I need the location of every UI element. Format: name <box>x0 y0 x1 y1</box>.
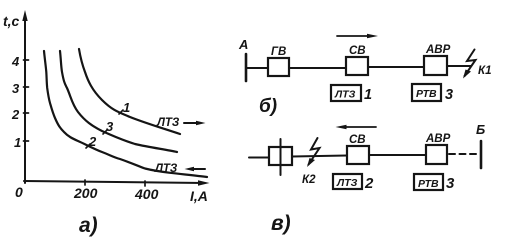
leader tick of label 1 <box>119 110 123 114</box>
open-state bar through GV <box>280 139 282 175</box>
fault K2 lightning bolt <box>309 138 320 165</box>
svg-text:К2: К2 <box>302 174 316 186</box>
leader tick of label 2 <box>86 144 90 148</box>
y tick 4 <box>24 59 29 61</box>
open breaker GV box (v) <box>269 147 292 165</box>
svg-text:б): б) <box>259 96 277 117</box>
svg-text:3: 3 <box>12 81 20 96</box>
power-flow arrow over SV (b) <box>337 35 371 37</box>
leader tick of label 3 <box>103 130 107 134</box>
svg-text:АВР: АВР <box>425 133 451 145</box>
svg-text:ГВ: ГВ <box>271 46 286 58</box>
wire SV to AVR (b) <box>368 66 424 68</box>
wire AVR to fault K1 <box>447 65 471 67</box>
relay RTV 3 box (b) <box>412 84 441 101</box>
power-flow arrow over SV (v) <box>342 126 376 128</box>
svg-text:А: А <box>238 37 248 52</box>
arrow left of bottom LTZ label <box>190 168 205 170</box>
svg-text:3: 3 <box>445 87 453 103</box>
svg-text:2: 2 <box>88 134 97 149</box>
arrow right of top LTZ label <box>184 122 200 124</box>
svg-text:СВ: СВ <box>349 134 366 146</box>
svg-text:3: 3 <box>446 175 455 192</box>
y-axis <box>24 16 26 183</box>
wire SV to AVR (v) <box>369 154 426 156</box>
breaker AVR box (b) <box>424 56 447 75</box>
curve 1 <box>79 49 180 134</box>
x-axis <box>24 181 204 183</box>
svg-text:1: 1 <box>364 87 372 103</box>
wire GV to SV <box>289 67 346 69</box>
svg-text:1: 1 <box>14 135 21 150</box>
breaker AVR box (v) <box>426 145 447 164</box>
svg-text:0: 0 <box>15 184 23 200</box>
x-axis arrowhead <box>198 180 210 185</box>
svg-text:t,c: t,c <box>3 13 20 29</box>
svg-text:ЛТЗ: ЛТЗ <box>336 177 358 189</box>
breaker SV box (v) <box>347 146 369 164</box>
x tick 200 <box>84 180 86 185</box>
svg-text:3: 3 <box>106 119 114 134</box>
wire GV to SV (v) <box>292 156 347 157</box>
svg-text:2: 2 <box>11 107 20 122</box>
svg-text:ЛТЗ: ЛТЗ <box>334 89 356 101</box>
bus B bar <box>480 141 483 168</box>
bus A bar <box>245 54 248 81</box>
svg-text:РТВ: РТВ <box>418 178 439 190</box>
svg-text:К1: К1 <box>478 65 491 77</box>
svg-text:в): в) <box>271 212 291 235</box>
curve 2 <box>44 51 207 177</box>
x tick 400 <box>144 181 146 186</box>
svg-text:1: 1 <box>123 100 130 115</box>
breaker GV box <box>268 58 289 76</box>
relay LTZ 2 box <box>333 174 362 189</box>
fault K1 lightning bolt <box>465 50 476 77</box>
y tick 3 <box>24 86 29 88</box>
relay LTZ 1 box <box>331 85 361 101</box>
svg-text:200: 200 <box>73 185 98 201</box>
svg-text:400: 400 <box>134 186 159 202</box>
breaker SV box (b) <box>346 57 368 75</box>
svg-text:2: 2 <box>364 175 374 192</box>
svg-text:ЛТЗ: ЛТЗ <box>156 117 180 129</box>
svg-text:а): а) <box>79 214 98 237</box>
svg-text:СВ: СВ <box>349 45 366 57</box>
dashed wire AVR to bus B <box>449 153 479 155</box>
svg-text:АВР: АВР <box>425 44 451 56</box>
wire bus A to GV <box>246 67 268 69</box>
svg-text:ЛТЗ: ЛТЗ <box>154 163 178 175</box>
svg-text:I,A: I,A <box>190 188 208 204</box>
curve 3 <box>60 51 177 152</box>
svg-text:Б: Б <box>476 122 485 137</box>
relay RTV 3 box (v) <box>414 174 443 190</box>
y-axis arrowhead <box>22 10 27 21</box>
svg-text:РТВ: РТВ <box>416 88 437 100</box>
y tick 2 <box>24 112 29 114</box>
y tick 1 <box>24 140 29 142</box>
wire stub left (v) <box>249 157 269 159</box>
svg-text:4: 4 <box>11 54 20 69</box>
